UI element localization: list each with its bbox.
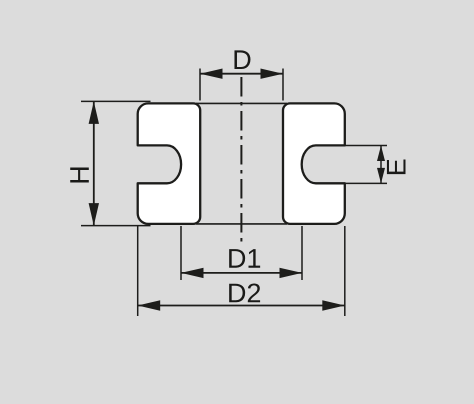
dimension H extension line bottom [81, 225, 151, 227]
grommet left section block [138, 103, 201, 223]
dimension D1 extension line left [180, 226, 182, 280]
dimension H arrowhead up [89, 101, 99, 124]
centerline [240, 77, 242, 242]
dimension D1 arrowhead left [181, 268, 204, 278]
grommet right section block [283, 103, 345, 223]
dimension D1 arrow line [181, 272, 302, 274]
top face line across hole gap [196, 102, 287, 104]
dimension H arrowhead down [89, 203, 99, 226]
label D1 [229, 249, 260, 268]
dimension D2 arrowhead left [138, 300, 161, 310]
label D2 [229, 283, 260, 302]
dimension E arrowhead up [377, 146, 385, 162]
dimension D extension line right [282, 69, 284, 101]
dimension D arrowhead left [200, 69, 223, 79]
dimension D2 arrow line [138, 305, 345, 307]
dimension E extension line top [345, 145, 387, 147]
dimension E extension line bottom [345, 182, 387, 184]
bottom face line across hole gap [196, 223, 287, 225]
label D [234, 50, 250, 69]
dimension E arrowhead down [377, 168, 385, 184]
dimension H arrow line [93, 101, 95, 225]
dimension E arrow shaft [380, 146, 382, 184]
dimension D extension line left [199, 69, 201, 101]
dimension D1 extension line right [301, 226, 303, 280]
dimension D2 arrowhead right [322, 300, 345, 310]
dimension D2 extension line right [344, 226, 346, 316]
dimension D2 extension line left [137, 226, 139, 316]
label H [70, 167, 89, 182]
dimension H extension line top [81, 100, 151, 102]
dimension D arrow line [200, 73, 283, 75]
dimension D arrowhead right [261, 69, 284, 79]
dimension D1 arrowhead right [280, 268, 303, 278]
label E [387, 159, 406, 174]
